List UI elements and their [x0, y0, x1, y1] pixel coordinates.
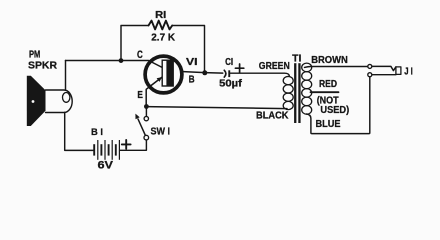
svg-text:50µf: 50µf [219, 78, 242, 89]
svg-text:E: E [137, 90, 143, 101]
svg-text:SPKR: SPKR [28, 61, 58, 72]
svg-text:SW I: SW I [151, 127, 171, 138]
svg-text:B I: B I [91, 127, 103, 138]
svg-text:VI: VI [186, 57, 198, 68]
svg-text:6V: 6V [98, 159, 114, 171]
svg-text:USED): USED) [320, 105, 349, 116]
svg-text:TI: TI [292, 53, 301, 64]
svg-text:BLACK: BLACK [256, 110, 289, 121]
svg-text:2.7 K: 2.7 K [151, 33, 175, 44]
svg-text:GREEN: GREEN [259, 61, 290, 72]
svg-text:CI: CI [225, 57, 233, 68]
svg-text:B: B [189, 75, 195, 86]
svg-text:PM: PM [29, 50, 40, 61]
svg-text:RED: RED [319, 79, 337, 90]
svg-text:J I: J I [404, 66, 413, 77]
svg-text:RI: RI [155, 10, 166, 21]
svg-text:BROWN: BROWN [311, 55, 348, 66]
svg-text:BLUE: BLUE [316, 119, 341, 130]
svg-text:C: C [137, 49, 143, 61]
